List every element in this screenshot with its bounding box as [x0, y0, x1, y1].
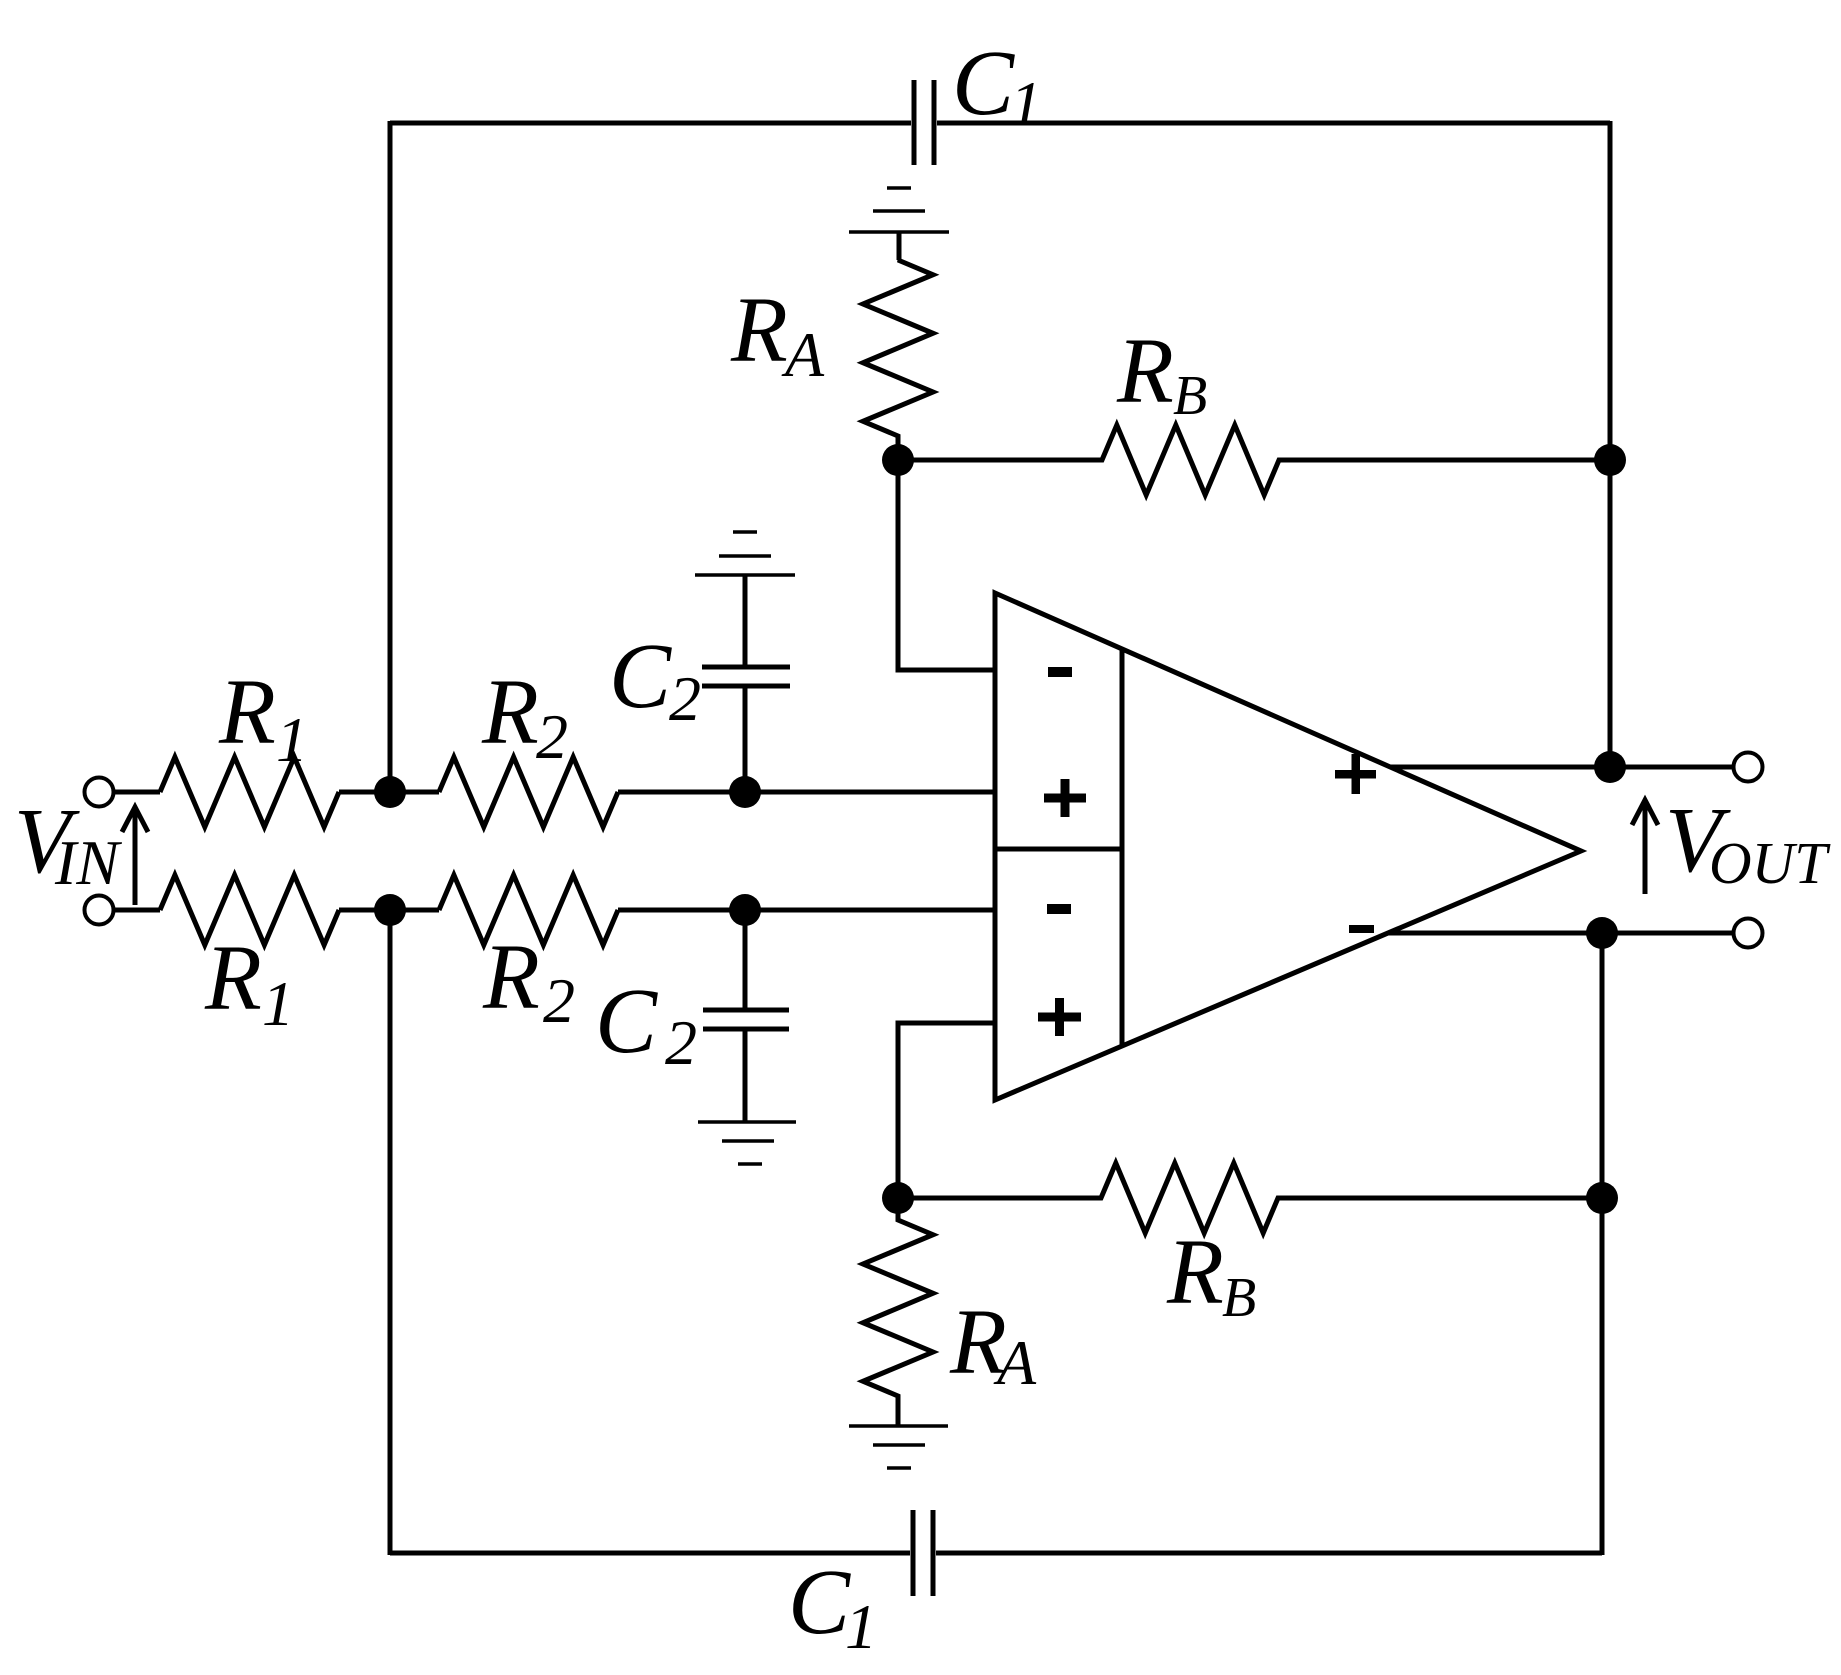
wire bottom rail left of C1 — [390, 1551, 910, 1556]
arrow VOUT — [1643, 801, 1648, 894]
resistor RB bottom with wires — [898, 1163, 1602, 1233]
wire output bottom — [1388, 931, 1732, 936]
resistor R1 bottom — [160, 875, 339, 945]
wire right vertical upper — [1608, 121, 1613, 767]
resistor RA top — [863, 232, 933, 460]
svg-text:R: R — [204, 927, 262, 1030]
node H output bottom junction — [1586, 917, 1618, 949]
svg-text:C: C — [595, 970, 658, 1073]
svg-text:2: 2 — [536, 701, 568, 772]
wire right vertical lower — [1600, 933, 1605, 1555]
node C bottom R1/R2 junction — [374, 894, 406, 926]
svg-text:B: B — [1222, 1267, 1256, 1329]
svg-text:IN: IN — [54, 827, 122, 898]
capacitor C2 bottom wire lower — [743, 1029, 748, 1122]
resistor RA bottom — [863, 1198, 933, 1426]
svg-text:R: R — [482, 926, 540, 1029]
node F RB top right junction — [1594, 444, 1626, 476]
svg-text:R: R — [1116, 320, 1174, 423]
svg-text:R: R — [218, 661, 276, 764]
svg-text:A: A — [993, 1327, 1037, 1398]
svg-text:1: 1 — [276, 704, 308, 775]
terminal input minus — [85, 896, 114, 925]
svg-text:OUT: OUT — [1709, 830, 1831, 896]
resistor R2 top — [439, 757, 618, 827]
capacitor C2 top wire upper — [743, 575, 748, 667]
svg-text:R: R — [730, 279, 788, 382]
wire feedback top node to op-amp minus input — [898, 460, 995, 670]
op-amp pin label plus bottom — [1038, 1013, 1081, 1022]
op-amp pin label minus bottom — [1047, 904, 1071, 914]
wire feedback bottom node to op-amp plus input — [898, 1023, 995, 1198]
ground top above C2 (inverted) — [733, 530, 757, 534]
ground bottom below C2 — [698, 1120, 796, 1124]
svg-text:A: A — [781, 319, 825, 390]
node I RA/RB bottom junction — [882, 1182, 914, 1214]
node D bottom R2/C2 junction — [729, 894, 761, 926]
arrow VIN — [133, 808, 138, 905]
wire left vertical upper — [388, 121, 393, 792]
resistor R2 bottom — [439, 875, 618, 945]
ground bottom below RA — [849, 1424, 948, 1428]
wire input top terminal to R1 — [114, 790, 160, 795]
node A top R1/R2 junction — [374, 776, 406, 808]
wire output top — [1390, 765, 1732, 770]
capacitor C2 top plates — [702, 684, 790, 689]
capacitor C2 bottom plates — [703, 1008, 789, 1013]
node J RB bottom right junction — [1586, 1182, 1618, 1214]
svg-text:1: 1 — [1010, 68, 1042, 139]
svg-text:B: B — [1173, 365, 1207, 427]
op-amp U1 body — [995, 593, 1581, 1100]
wire R1 to R2 top — [339, 790, 439, 795]
op-amp mid divider — [995, 847, 1122, 852]
op-amp pin label minus top — [1048, 667, 1072, 677]
svg-text:C: C — [952, 32, 1015, 135]
svg-text:R: R — [481, 661, 539, 764]
op-amp output label plus — [1335, 770, 1376, 779]
node B top R2/C2 junction — [729, 776, 761, 808]
svg-text:2: 2 — [669, 663, 701, 734]
wire R2 bottom to op-amp minus input — [618, 908, 995, 913]
svg-text:2: 2 — [665, 1007, 697, 1078]
op-amp output label minus — [1349, 925, 1374, 933]
terminal input plus — [85, 778, 114, 807]
terminal output minus — [1734, 919, 1763, 948]
terminal output plus — [1734, 753, 1763, 782]
op-amp inner vertical — [1120, 649, 1125, 1046]
node G output top junction — [1594, 751, 1626, 783]
wire R2 top to op-amp plus input — [618, 790, 995, 795]
wire top rail right of C1 — [937, 121, 1610, 126]
resistor RB top with wires — [898, 425, 1610, 495]
resistor R1 top — [160, 757, 339, 827]
ground top above RA (inverted) — [887, 186, 911, 190]
wire input bottom terminal to R1 — [114, 908, 160, 913]
svg-text:R: R — [1166, 1221, 1224, 1324]
svg-text:C: C — [609, 625, 672, 728]
capacitor C1 bottom plates — [911, 1510, 916, 1596]
wire left vertical lower — [388, 910, 393, 1555]
capacitor C1 top plates — [912, 80, 917, 165]
svg-text:1: 1 — [845, 1591, 877, 1662]
node E RA/RB top junction — [882, 444, 914, 476]
wire bottom rail right of C1 — [936, 1551, 1602, 1556]
wire R1 to R2 bottom — [339, 908, 439, 913]
svg-text:1: 1 — [262, 968, 294, 1039]
svg-text:2: 2 — [543, 965, 575, 1036]
capacitor C2 top wire lower — [743, 688, 748, 792]
svg-text:C: C — [788, 1551, 851, 1654]
wire top rail left of C1 — [390, 121, 911, 126]
capacitor C2 bottom wire upper — [743, 910, 748, 1010]
op-amp pin label plus top — [1044, 794, 1086, 803]
